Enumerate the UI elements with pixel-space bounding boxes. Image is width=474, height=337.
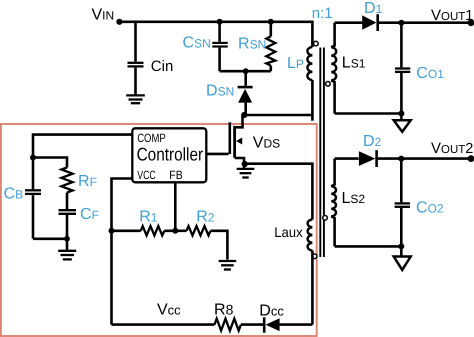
wire VCC pin down left xyxy=(112,179,133,325)
svg-text:R8: R8 xyxy=(214,302,234,319)
svg-text:CO1: CO1 xyxy=(416,65,444,82)
wire R2 to ground xyxy=(211,231,228,260)
wire drain rail xyxy=(244,114,312,117)
svg-text:DSN: DSN xyxy=(206,83,234,100)
svg-text:LP: LP xyxy=(287,55,304,72)
node Co1 bottom xyxy=(398,111,404,117)
node Co2 bottom xyxy=(398,243,404,249)
svg-text:Vcc: Vcc xyxy=(157,302,181,319)
ground sec2 xyxy=(394,246,411,270)
wire gate xyxy=(206,153,228,156)
ground sec1 xyxy=(394,114,411,132)
node RSN top xyxy=(268,19,274,25)
wire D2 to VOUT2 xyxy=(378,157,471,160)
wire top VIN rail xyxy=(119,22,312,47)
inductor LP xyxy=(307,47,312,80)
capacitor Co1 xyxy=(395,23,410,114)
ground under mosfet xyxy=(237,169,255,178)
svg-text:Cin: Cin xyxy=(151,58,174,75)
resistor R8 xyxy=(215,319,241,331)
node Co1 top xyxy=(398,20,404,26)
node FB R1 R2 xyxy=(172,228,178,234)
mosfet Q1 xyxy=(230,115,244,168)
svg-text:VCC: VCC xyxy=(137,168,156,182)
wire LS2 bottom xyxy=(335,245,402,248)
wire CB CF bottom join xyxy=(33,238,67,241)
wire secondary1 top xyxy=(335,21,363,24)
ground under CB CF xyxy=(58,251,76,260)
svg-text:CB: CB xyxy=(4,186,24,203)
capacitor CB xyxy=(25,158,41,239)
diode Dcc xyxy=(264,317,312,332)
polarity dot LS1 xyxy=(326,82,331,87)
wire D1 to VOUT1 xyxy=(379,21,471,24)
node drain xyxy=(241,112,247,118)
capacitor CSN xyxy=(212,22,227,71)
svg-text:LS1: LS1 xyxy=(342,54,366,71)
inductor Laux xyxy=(308,220,313,251)
svg-text:VOUT2: VOUT2 xyxy=(431,140,473,157)
svg-text:R1: R1 xyxy=(139,209,158,226)
polarity dot LS2 xyxy=(323,216,328,221)
svg-text:D1: D1 xyxy=(364,0,383,17)
svg-text:LS2: LS2 xyxy=(342,190,366,207)
wire R8 to Dcc xyxy=(241,323,263,326)
transformer core xyxy=(320,48,324,258)
resistor RSN xyxy=(266,22,275,71)
node R1 left xyxy=(109,228,115,234)
wire FB pin down xyxy=(174,182,177,231)
wire between R1 R2 xyxy=(164,230,186,233)
svg-text:RF: RF xyxy=(78,173,97,190)
polarity dot LP xyxy=(314,41,319,46)
svg-text:VIN: VIN xyxy=(92,7,115,24)
resistor RF xyxy=(61,168,72,193)
diode D1 xyxy=(362,14,378,31)
inductor LS1 xyxy=(331,23,336,114)
wire Laux to bottom rail xyxy=(311,251,314,325)
diode DSN xyxy=(238,71,253,115)
svg-text:FB: FB xyxy=(169,168,182,182)
wire LS1 bottom xyxy=(335,112,402,115)
svg-text:R2: R2 xyxy=(196,209,215,226)
svg-text:CSN: CSN xyxy=(183,35,211,52)
node VOUT1 xyxy=(468,19,474,26)
ground under R2 xyxy=(219,261,237,270)
svg-text:CF: CF xyxy=(80,206,99,223)
capacitor CF xyxy=(59,193,77,250)
wire to R1 xyxy=(112,230,141,233)
node CF bottom xyxy=(64,236,70,242)
svg-text:n:1: n:1 xyxy=(312,5,333,22)
polarity dot Laux xyxy=(312,254,317,259)
node Co2 top xyxy=(398,156,404,162)
controller U1 xyxy=(132,128,206,182)
svg-text:RSN: RSN xyxy=(238,36,266,53)
diode D2 xyxy=(359,150,377,167)
wire secondary2 top xyxy=(335,157,359,160)
svg-text:CO2: CO2 xyxy=(416,200,444,217)
node snubber bottom xyxy=(243,68,249,74)
node VIN xyxy=(116,19,122,25)
wire COMP to node xyxy=(33,135,132,158)
capacitor Co2 xyxy=(395,159,410,247)
node VOUT2 xyxy=(468,155,474,162)
inductor LS2 xyxy=(331,159,336,247)
svg-text:VDS: VDS xyxy=(253,135,280,152)
ground under Cin xyxy=(126,95,145,103)
wire snubber bottom xyxy=(220,70,271,73)
capacitor Cin xyxy=(128,22,144,95)
svg-text:D2: D2 xyxy=(363,133,382,150)
wire comp node to RF xyxy=(33,158,67,168)
svg-text:Dcc: Dcc xyxy=(259,302,284,319)
node CSN top xyxy=(217,19,223,25)
wire LP to Laux stem xyxy=(311,80,314,121)
wire bottom rail left xyxy=(112,323,215,326)
node source xyxy=(242,161,248,167)
resistor R2 xyxy=(187,226,211,235)
boundary box primary-side xyxy=(1,124,317,336)
wire source to Laux xyxy=(245,164,313,220)
svg-text:VOUT1: VOUT1 xyxy=(431,7,473,24)
svg-text:Laux: Laux xyxy=(274,224,303,240)
svg-text:Controller: Controller xyxy=(137,144,204,165)
resistor R1 xyxy=(141,226,165,235)
node comp net xyxy=(30,155,36,161)
